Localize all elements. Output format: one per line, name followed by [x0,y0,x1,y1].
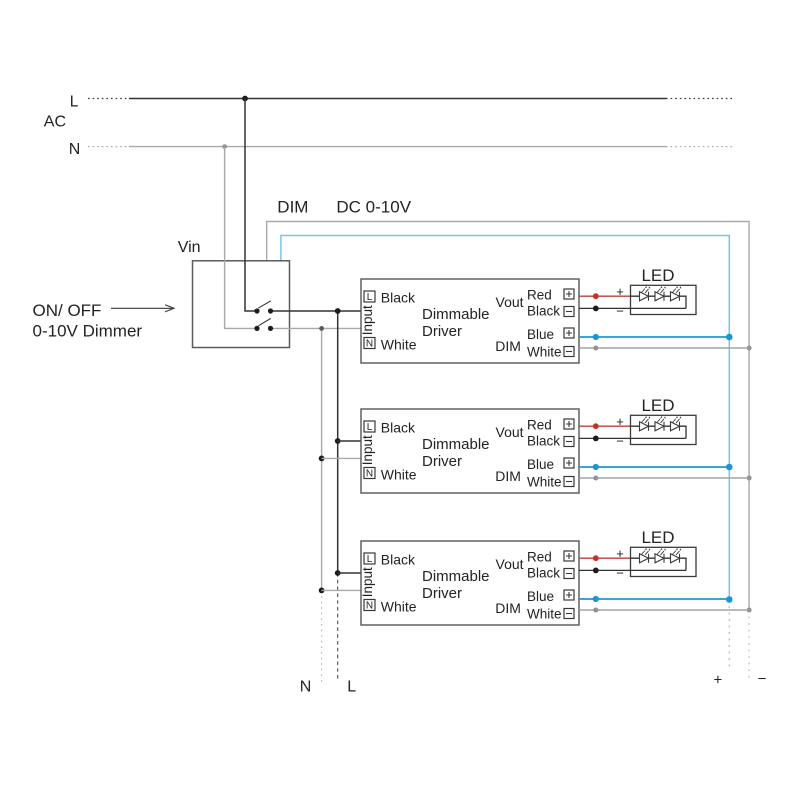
junction N at driver3 [319,588,325,594]
wire L distribution vertical [337,311,339,573]
LED module LED3 [616,528,696,581]
wire N to driver 2 [322,457,361,459]
svg-text:+: + [714,671,723,688]
wire L to driver 3 [338,572,361,574]
svg-text:N: N [69,141,81,158]
wire DIM+ dashed lower end [728,600,730,670]
svg-text:DC 0-10V: DC 0-10V [336,198,411,217]
wire AC N line solid [129,146,666,148]
wire DIM+ blue bus [281,236,729,600]
wire L drop into dimmer [245,99,257,312]
svg-text:−: − [758,671,767,688]
junction on N line [222,144,227,149]
wire N to driver 3 [322,589,361,591]
driver U1 output wires [579,293,749,350]
wire N vertical dashed end [321,590,323,683]
junction DIM- row3 [747,608,752,613]
LED module LED2 [616,396,696,449]
wire N drop into dimmer [225,147,257,329]
driver U1 [360,279,579,363]
wire AC L line dotted right [666,98,735,100]
driver U2 [360,409,579,493]
junction N at driver1 [319,326,324,331]
svg-text:L: L [70,94,79,111]
svg-text:N: N [300,679,312,696]
svg-text:Vin: Vin [178,239,201,256]
junction L at driver2 [335,438,341,444]
wire DIM- gray bus [267,222,749,611]
wire DIM- dashed lower end [748,610,750,678]
wire L to driver 2 [338,440,361,442]
svg-text:ON/ OFF: ON/ OFF [33,301,102,320]
junction L at driver1 [335,308,341,314]
wire L vertical dashed end [337,573,339,679]
junction DIM- row1 [747,346,752,351]
junction N at driver2 [319,456,325,462]
svg-text:0-10V Dimmer: 0-10V Dimmer [33,322,143,341]
junction DIM+ row1 [726,334,733,341]
wire AC N line dotted right [666,146,735,148]
junction DIM+ row3 [726,596,733,603]
LED module LED1 [616,266,696,319]
junction DIM+ row2 [726,464,733,471]
arrow to dimmer [111,305,174,312]
dimmer box U0 (0-10V dimmer) [193,261,290,348]
junction on L line [242,96,248,102]
svg-text:L: L [347,679,356,696]
switch S1 (live) [254,301,273,314]
wire AC L line dotted left [88,98,129,100]
junction DIM- row2 [747,476,752,481]
wire switched L to driver 1 [271,310,362,312]
wire N distribution vertical [321,328,323,590]
svg-text:AC: AC [44,114,66,131]
wire AC N line dotted left [88,146,129,148]
wire switched N to driver 1 [271,327,362,329]
driver U3 [360,541,579,625]
driver U3 output wires [579,555,749,612]
junction L at driver3 [335,570,341,576]
wire AC L line solid [129,98,666,100]
svg-text:DIM: DIM [277,198,308,217]
driver U2 output wires [579,423,749,480]
switch S2 (neutral) [254,318,273,331]
